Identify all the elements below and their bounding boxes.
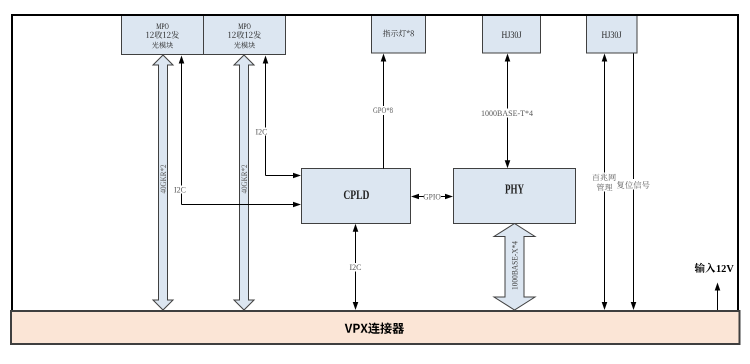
svg-text:1000BASE-X*4: 1000BASE-X*4 — [510, 241, 519, 290]
svg-text:40GKR*2: 40GKR*2 — [240, 165, 249, 194]
svg-text:GPO*8: GPO*8 — [373, 106, 393, 115]
svg-text:40GKR*2: 40GKR*2 — [159, 165, 168, 194]
svg-text:MPO: MPO — [238, 21, 251, 31]
svg-text:GPIO: GPIO — [423, 192, 441, 201]
svg-text:PHY: PHY — [505, 183, 524, 198]
svg-text:HJ30J: HJ30J — [602, 30, 622, 40]
svg-text:1000BASE-T*4: 1000BASE-T*4 — [481, 109, 533, 118]
svg-text:HJ30J: HJ30J — [502, 30, 522, 40]
svg-text:I2C: I2C — [350, 263, 362, 272]
svg-text:CPLD: CPLD — [343, 187, 369, 202]
svg-text:I2C: I2C — [174, 186, 186, 195]
svg-text:I2C: I2C — [256, 128, 268, 137]
svg-text:12V: 12V — [716, 264, 734, 275]
svg-text:MPO: MPO — [156, 21, 169, 31]
